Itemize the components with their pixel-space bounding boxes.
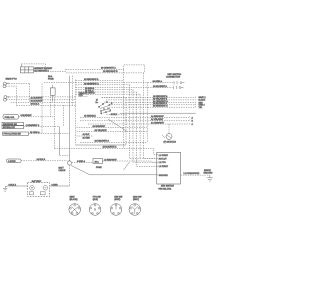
ground wire battery [8,185,28,187]
wire harness h3 [76,84,130,86]
separator line [120,112,196,114]
console harness bottom edge [76,144,126,146]
svg-text:L2 CONDUCTOR: L2 CONDUCTOR [184,173,200,175]
right pin wire g2 [80,120,190,121]
wire PTO [29,133,70,135]
svg-text:16 RED/WHT B: 16 RED/WHT B [103,71,118,73]
connector J1 round [69,204,81,216]
wire P1-a [6,83,29,85]
fuel solenoid box [3,115,19,120]
wire switch diag [108,119,127,132]
wire splice ground diag [71,166,157,175]
svg-text:(WHT): (WHT) [114,199,120,201]
svg-text:S: S [110,110,112,112]
fuse 20A label [48,75,54,80]
riser x50.8 [50,97,52,117]
wire P2-b [6,99,76,101]
svg-text:16 BLK/WHT A: 16 BLK/WHT A [153,85,168,88]
svg-text:6 RED A: 6 RED A [77,160,86,163]
wire fuse to key [103,161,157,162]
svg-text:16 BRN/WHT C: 16 BRN/WHT C [153,106,168,108]
bundle wire v8 [146,83,148,143]
stub x72 [71,76,73,106]
console harness left edge [75,79,77,145]
right pin wire a5 [109,106,196,107]
wire switch mid [106,114,126,116]
bundle wire v4 [133,90,157,163]
right pin wire g3 [88,123,190,124]
wire cluster b2 [77,131,148,133]
bundle wire v5 [137,92,157,166]
bundle diagonal [124,162,130,170]
svg-text:HOT A/T: HOT A/T [159,158,168,161]
wire harness h1 [76,80,124,82]
feed wire y155 [60,154,70,156]
svg-text:BLK RED/WHT A: BLK RED/WHT A [34,70,49,73]
connector pins h2 [174,81,184,84]
earth ground label [204,169,213,175]
riser x54 [53,97,55,148]
svg-text:KEY SWITCH: KEY SWITCH [161,186,174,188]
connector J2 round [89,204,101,216]
svg-text:FUSE: FUSE [48,79,54,81]
right pin wire a4 [109,104,196,105]
battery B1 [28,183,50,197]
riser x63.5 [63,105,65,127]
BATT label [59,167,66,173]
svg-text:16 YEL/WHT: 16 YEL/WHT [95,130,108,132]
svg-text:(BLACK): (BLACK) [70,198,78,201]
svg-text:40 A: 40 A [95,161,100,164]
svg-text:16 BLK A: 16 BLK A [31,102,40,105]
right pin wire a2 [106,99,196,100]
hour meter module [162,124,172,140]
wire cluster b3 [77,135,94,137]
earth ground symbol [207,175,213,181]
svg-text:L1 START: L1 START [159,154,169,157]
connector J3 label [114,196,122,200]
wire J strip to splice [21,160,67,162]
wire reverse interlock [24,126,60,128]
svg-text:J STRIP: J STRIP [8,161,16,163]
wire cluster b4 [80,141,147,143]
connector J3 round [110,204,122,216]
svg-text:41 BLK/WHT: 41 BLK/WHT [31,97,44,99]
svg-text:FUSE: FUSE [96,167,102,169]
reverse switch box [2,122,24,126]
svg-text:16 ORG A: 16 ORG A [30,131,40,134]
svg-text:(WHT): (WHT) [133,199,139,201]
hour meter label [164,142,177,144]
wire harness h2 [76,82,174,84]
svg-text:INTERLOCK: INTERLOCK [3,127,16,129]
right pin labels a [153,95,168,108]
svg-text:14 BLK A: 14 BLK A [37,158,46,161]
riser x59.6 [59,127,61,156]
bundle wire v6 [139,94,141,158]
console harness top edge [102,96,127,98]
svg-text:M: M [96,100,98,102]
svg-text:16 GRN/WHT A: 16 GRN/WHT A [84,82,99,85]
wire harness h5 [76,89,133,91]
svg-text:LTS: LTS [79,95,83,97]
svg-text:GROUND: GROUND [159,175,168,177]
wire fuel solenoid [19,116,55,118]
bundle wire v1 [124,69,157,154]
svg-text:YEL: YEL [199,107,204,109]
wire ammeter feed [44,82,76,84]
right pin wire g1 [80,116,190,117]
right pin labels g [151,116,165,125]
svg-text:CABLE: CABLE [59,169,66,172]
wire top feed B [66,72,145,74]
wire P2-a [7,96,76,98]
fuse block labels [34,68,53,73]
ground symbol battery [3,186,8,191]
wire top feed A [66,68,124,70]
key switch box U1 [157,152,181,184]
svg-text:16 ORG/WHT A: 16 ORG/WHT A [101,67,116,70]
svg-text:(BLK): (BLK) [93,199,98,201]
svg-text:CONNECTOR: CONNECTOR [166,77,180,79]
svg-text:41 RED: 41 RED [83,137,91,139]
svg-text:6 RED: 6 RED [52,184,59,186]
connector pins h4 [174,86,184,89]
svg-text:GROUND: GROUND [204,172,213,174]
svg-text:14 RED/WHT: 14 RED/WHT [151,116,164,118]
svg-text:BLACK: BLACK [199,99,206,102]
wire splice to fuse [72,162,93,164]
J strip box [7,159,22,163]
svg-text:L1 PTO: L1 PTO [159,162,166,164]
wire labels left nets [31,97,44,105]
wire from fuse block [22,64,66,72]
svg-text:6 BLK A: 6 BLK A [9,183,17,186]
splice node [67,160,71,165]
battery main vertical [69,76,71,161]
fuse block F1 [20,64,33,73]
connector J4 round [129,204,141,216]
wire splice down [69,165,71,186]
key switch pin ticks [157,155,158,175]
svg-text:16 ORG B: 16 ORG B [85,93,95,95]
bundle wire v2 [125,115,127,122]
svg-text:G: G [101,113,103,115]
riser x42 [41,84,43,134]
ammeter box [50,85,55,102]
right pin tags g [192,116,194,126]
wire battery positive [50,185,70,187]
svg-text:14 ORG/WHT: 14 ORG/WHT [151,122,165,124]
svg-text:PTO CLUTCH SW: PTO CLUTCH SW [4,134,21,136]
svg-text:B+: B+ [96,102,99,104]
vertical riser x29 [29,84,31,103]
wire top jog [124,65,145,73]
svg-text:C: C [192,124,194,126]
svg-text:16 GRN A: 16 GRN A [153,80,163,83]
svg-text:B: B [192,121,194,123]
connector J1 label [70,195,78,200]
headlight label [79,92,85,97]
PTO switch box [3,132,29,136]
svg-text:16 BLK/WHT: 16 BLK/WHT [31,101,44,103]
console harness right edge [125,97,127,145]
right pin wire a1 [102,96,196,97]
inline fuse [93,159,103,164]
feed wire y148 [54,147,123,149]
svg-text:20 BRN/WHT: 20 BRN/WHT [93,126,106,128]
wire net 41BLKWHT [16,105,76,107]
key switch pin labels [159,154,169,177]
svg-text:3 BLK/WHT: 3 BLK/WHT [21,115,33,117]
svg-text:16 RED/WHT A: 16 RED/WHT A [95,140,110,143]
connector P1 (2-pin) [3,82,9,88]
svg-text:FUEL SOL: FUEL SOL [5,117,16,119]
svg-text:KEY SWITCH: KEY SWITCH [168,74,182,76]
ignition switch contacts [96,100,118,116]
svg-text:L2 START: L2 START [159,165,169,168]
wire harness h4 [76,87,173,89]
svg-text:14 YEL/WHT: 14 YEL/WHT [151,119,164,121]
right pin tags a [199,96,207,109]
right pin wire a3 [106,101,196,102]
connector J2 label [93,196,101,200]
svg-text:REAR PTO: REAR PTO [6,78,17,81]
svg-text:16 RED/WHT A: 16 RED/WHT A [84,78,99,81]
wire harness h6 [76,91,137,93]
interlock box [2,126,24,130]
svg-text:4 ORG/WHT A: 4 ORG/WHT A [26,124,40,127]
wire key ground out [181,174,210,176]
wire net 16BLK [11,102,76,104]
headlight block frame [79,92,88,97]
svg-text:BATT: BATT [59,167,65,170]
svg-text:A: A [192,116,194,119]
wire harness h7 [76,93,140,95]
bundle wire v3 [130,85,157,159]
connector J4 label [133,195,141,200]
bundle wire v7 [144,73,157,159]
wire P1-b [6,86,16,105]
key switch caption [159,186,175,191]
svg-text:P/N 925-1741: P/N 925-1741 [159,188,173,190]
key switch connector label [166,74,181,79]
small labels 41 [83,134,91,139]
wire cluster b1 [77,126,148,128]
svg-text:(P) MODULE: (P) MODULE [164,142,177,144]
connector P2 (2-pin) [3,96,9,102]
